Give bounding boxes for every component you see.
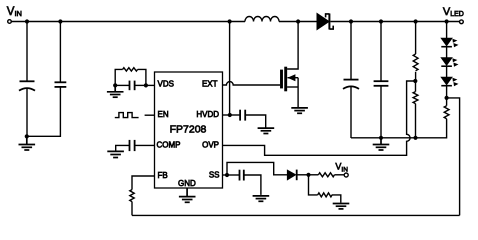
- svg-text:OVP: OVP: [202, 141, 219, 150]
- wire top rail inductor to diode: [279, 21, 317, 23]
- capacitor SS C: [227, 170, 261, 195]
- wire HVDD stub to pin: [223, 114, 230, 116]
- wire OVP branch with hop: [223, 81, 416, 155]
- node rail junction LED: [445, 19, 449, 23]
- terminal VIN bottom: [335, 162, 348, 178]
- node D2 cathode junction: [306, 173, 310, 177]
- resistor R3 (to VIN): [309, 173, 345, 177]
- node VDS right junction: [144, 83, 148, 87]
- LED D4: [441, 58, 452, 65]
- inductor L1: [245, 17, 279, 22]
- svg-text:FB: FB: [158, 171, 168, 180]
- node rail junction divider: [414, 19, 418, 23]
- wire VDS to pin: [146, 84, 155, 86]
- ground COMP: [107, 151, 124, 157]
- ground SS: [253, 196, 270, 201]
- svg-text:VDS: VDS: [158, 79, 174, 88]
- LED D3: [441, 38, 452, 45]
- wire sense to right bus: [447, 98, 460, 215]
- node SS junction: [225, 173, 229, 177]
- svg-text:EN: EN: [158, 110, 169, 119]
- node input ground junction: [25, 134, 29, 138]
- capacitor C4 (output ceramic): [374, 22, 389, 138]
- node divider mid junction: [413, 79, 417, 83]
- svg-text:VIN: VIN: [335, 162, 348, 174]
- node rail junction HVDD: [228, 19, 232, 23]
- transistor Q1 N-MOSFET: [282, 22, 299, 108]
- ground R6: [333, 204, 350, 209]
- node rail junction C4: [379, 19, 383, 23]
- capacitor COMP C: [116, 140, 155, 151]
- ground input: [19, 136, 36, 150]
- capacitor HVDD C: [230, 110, 266, 128]
- svg-text:COMP: COMP: [157, 141, 181, 150]
- svg-text:EXT: EXT: [202, 79, 218, 88]
- LED D5: [441, 77, 452, 84]
- diode D2: [287, 170, 308, 181]
- node input rail junction A: [25, 19, 29, 23]
- svg-text:GND: GND: [178, 179, 196, 188]
- node output gnd junction C4: [379, 136, 383, 140]
- wire output ground line: [351, 119, 447, 138]
- wire EN stub: [145, 114, 155, 116]
- node input rail junction B: [58, 19, 62, 23]
- wire top rail diode to VLED: [331, 21, 460, 23]
- capacitor C3 (output electrolytic): [343, 22, 359, 139]
- wire HVDD branch from rail: [229, 22, 231, 116]
- wire SS jog to diode: [227, 162, 287, 175]
- resistor R5 (LED current sense): [444, 98, 449, 119]
- ground Q1 source: [291, 108, 308, 113]
- svg-text:SS: SS: [209, 171, 220, 180]
- svg-text:VLED: VLED: [443, 6, 464, 18]
- terminal VLED: [443, 6, 464, 24]
- capacitor C2 (input ceramic): [27, 22, 66, 137]
- IC U1 FP7208: [155, 72, 223, 188]
- wire top rail VIN to inductor: [11, 21, 245, 23]
- node rail junction C3: [349, 19, 353, 23]
- wire SS stub: [223, 174, 228, 176]
- wire EXT to gate with hop: [223, 82, 281, 85]
- node HVDD junction: [228, 113, 232, 117]
- capacitor VDS C (snubber): [115, 81, 146, 91]
- capacitor C1 (input electrolytic): [19, 22, 35, 137]
- wire FB to resistor: [132, 176, 155, 190]
- ground output: [373, 138, 390, 150]
- node VDS left junction: [113, 83, 117, 87]
- resistor VDS R (snubber): [115, 68, 146, 86]
- node rail junction drain: [296, 19, 300, 23]
- wire FB resistor to bottom bus: [131, 202, 133, 216]
- node output gnd junction divider: [413, 136, 417, 140]
- resistor R4 (FB series): [130, 190, 134, 202]
- resistor R2 (OVP divider bottom): [413, 81, 418, 138]
- ground HVDD: [258, 128, 275, 133]
- terminal VIN top-left: [7, 6, 22, 23]
- ground IC GND: [179, 188, 196, 202]
- node LED sense junction: [445, 96, 449, 100]
- svg-text:HVDD: HVDD: [196, 110, 219, 119]
- wire bottom bus: [132, 214, 460, 216]
- ground VDS: [107, 85, 124, 97]
- diode D1 schottky: [317, 13, 333, 29]
- EN pulse waveform symbol: [115, 113, 139, 118]
- resistor R1 (OVP divider top): [413, 22, 418, 82]
- svg-text:FP7208: FP7208: [170, 124, 207, 136]
- svg-text:VIN: VIN: [7, 6, 22, 18]
- LED string D3 D4 D5: [441, 22, 458, 98]
- resistor R6 (to ground): [309, 175, 341, 203]
